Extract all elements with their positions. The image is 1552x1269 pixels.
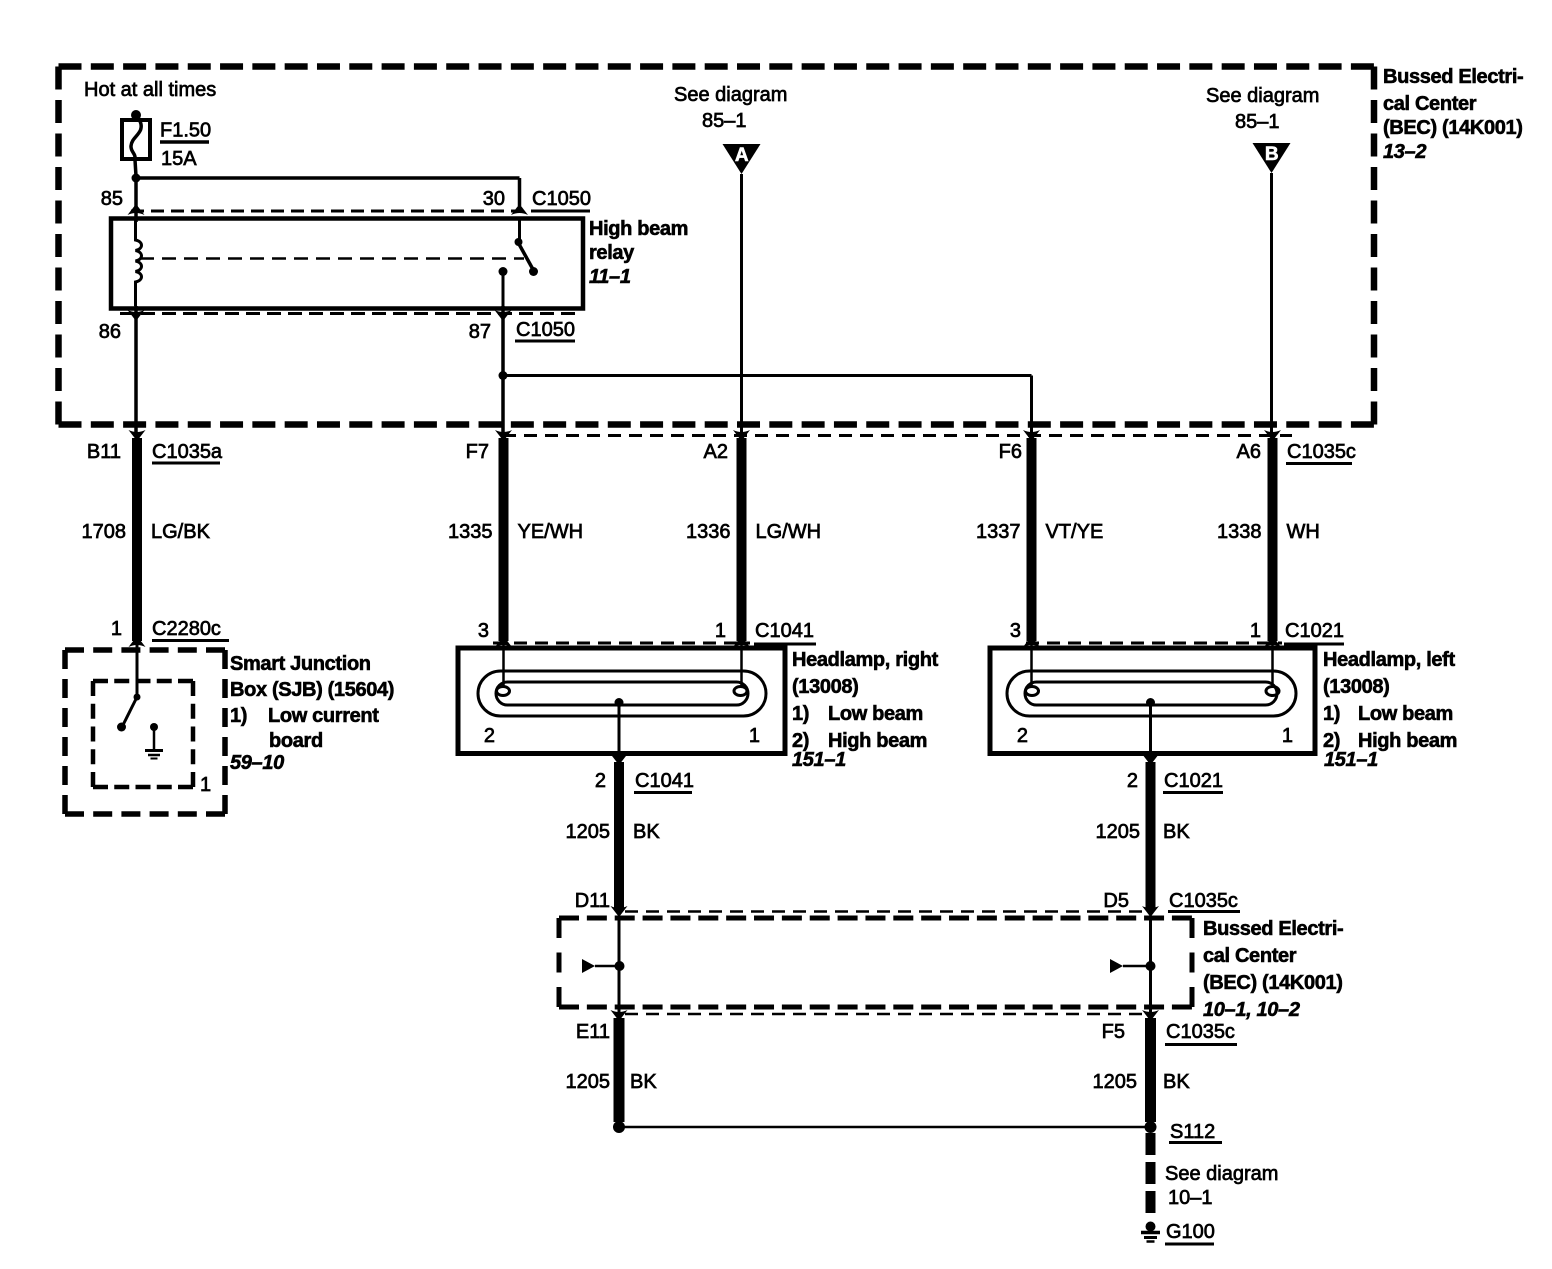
- headlamp right high beam filament: [734, 687, 747, 696]
- wire 1205 BK (F5, thick): [1145, 1018, 1156, 1122]
- connector label C1035c (middle): [1168, 890, 1240, 912]
- svg-text:1205: 1205: [1093, 1071, 1138, 1093]
- connector C1050 dashed line (bottom): [120, 312, 580, 315]
- svg-text:C1021: C1021: [1285, 620, 1344, 642]
- svg-text:1): 1): [230, 705, 247, 727]
- svg-text:BK: BK: [633, 821, 660, 843]
- svg-text:D11: D11: [575, 890, 610, 912]
- svg-text:(BEC) (14K001): (BEC) (14K001): [1383, 117, 1523, 139]
- pin 2 arrow (right lamp): [611, 754, 628, 765]
- label Bussed Electrical Center (BEC) (14K001) 13-2: [1383, 66, 1523, 163]
- svg-text:BK: BK: [1163, 821, 1190, 843]
- wire pin 86 down to B11: [134, 306, 138, 432]
- svg-text:1335: 1335: [448, 521, 493, 543]
- svg-text:C1041: C1041: [635, 770, 694, 792]
- connector label C1041 (top): [754, 620, 816, 644]
- label High beam relay 11-1: [589, 218, 688, 288]
- wire pin 1 to filament (left lamp): [1271, 641, 1274, 687]
- svg-text:G100: G100: [1166, 1221, 1215, 1243]
- svg-text:VT/YE: VT/YE: [1046, 521, 1104, 543]
- svg-text:85: 85: [101, 188, 123, 210]
- svg-text:cal Center: cal Center: [1383, 93, 1477, 115]
- connector label C1041 (bottom): [634, 770, 694, 793]
- pin A2 arrow: [733, 430, 750, 441]
- svg-text:Hot at all times: Hot at all times: [84, 79, 216, 101]
- wire pin 3 to filament (left lamp): [1030, 641, 1033, 687]
- connector label C1035a: [152, 441, 223, 463]
- pin E11 arrow: [611, 1010, 628, 1021]
- connector label C1021 (bottom): [1163, 770, 1223, 793]
- svg-text:D5: D5: [1103, 890, 1129, 912]
- svg-text:S112: S112: [1170, 1121, 1215, 1143]
- wire left lamp common to pin 2: [1149, 703, 1152, 759]
- svg-text:F1.50: F1.50: [160, 120, 211, 142]
- pin 87 arrow: [495, 310, 512, 321]
- Headlamp, left box (13008): [990, 648, 1315, 754]
- wire into SJB: [136, 641, 139, 698]
- wire 1337 VT/YE (thick): [1027, 438, 1037, 641]
- svg-text:C1035c: C1035c: [1287, 441, 1356, 463]
- label Headlamp, left (13008): [1323, 649, 1457, 771]
- wire splice (horizontal): [619, 1126, 1145, 1129]
- pin 3 arrow (right headlamp): [495, 636, 512, 647]
- SJB switch: [117, 681, 141, 732]
- wire branch down to F6: [1030, 376, 1033, 433]
- svg-text:See diagram: See diagram: [1206, 85, 1319, 107]
- svg-text:86: 86: [99, 321, 121, 343]
- svg-text:F7: F7: [466, 441, 489, 463]
- svg-text:1337: 1337: [976, 521, 1021, 543]
- svg-text:A: A: [735, 145, 749, 166]
- svg-text:LG/BK: LG/BK: [151, 521, 211, 543]
- svg-text:Headlamp, left: Headlamp, left: [1323, 649, 1455, 671]
- svg-text:(13008): (13008): [792, 676, 859, 698]
- svg-text:(BEC) (14K001): (BEC) (14K001): [1203, 972, 1343, 994]
- node: stub junction right: [1146, 961, 1156, 971]
- wire pin 3 to filament (right lamp): [502, 641, 505, 687]
- wire fuse to relay pin 30 (horizontal): [136, 176, 520, 180]
- wire 1708 LG/BK (thick): [132, 438, 142, 641]
- svg-text:1: 1: [200, 774, 211, 796]
- svg-text:1336: 1336: [686, 521, 731, 543]
- connector C1021 dashed line: [1026, 642, 1282, 645]
- svg-text:87: 87: [469, 321, 491, 343]
- wire down to pin 30: [518, 178, 522, 206]
- label See diagram 85-1 (A): [674, 84, 787, 132]
- svg-text:13–2: 13–2: [1383, 141, 1426, 163]
- svg-text:1): 1): [1323, 703, 1340, 725]
- svg-text:C1035a: C1035a: [152, 441, 223, 463]
- svg-text:3: 3: [1010, 620, 1021, 642]
- headlamp right low beam filament: [497, 687, 510, 696]
- label S112: [1169, 1121, 1222, 1143]
- svg-text:cal Center: cal Center: [1203, 945, 1297, 967]
- node: splice S112: [1145, 1121, 1157, 1133]
- wire pin 87 down to F7: [501, 306, 505, 432]
- svg-text:85–1: 85–1: [702, 110, 747, 132]
- connector C1050 dashed line (top): [131, 210, 523, 213]
- pin A6 arrow: [1264, 430, 1281, 441]
- connector C1041 dashed line: [493, 642, 750, 645]
- off-page connector triangle A: [723, 144, 761, 174]
- svg-text:F6: F6: [999, 441, 1022, 463]
- svg-text:2: 2: [1017, 725, 1028, 747]
- svg-text:1205: 1205: [1096, 821, 1141, 843]
- pin 30 arrow: [511, 204, 528, 215]
- pin F5 arrow: [1142, 1010, 1159, 1021]
- pin 1 arrow at C2280c: [129, 636, 146, 647]
- SJB low current board inner dashed box: [93, 679, 193, 684]
- svg-text:C1035c: C1035c: [1169, 890, 1238, 912]
- svg-text:BK: BK: [630, 1071, 657, 1093]
- connector label C1050 (bottom): [515, 319, 575, 341]
- connector label C1021 (top): [1284, 620, 1344, 644]
- connector C1035 dashed line below BEC: [503, 434, 1292, 437]
- node: splice left: [613, 1121, 625, 1133]
- label See diagram 85-1 (B): [1206, 85, 1319, 133]
- headlamp left bulb outer outline: [1007, 671, 1296, 716]
- node: right lamp common: [615, 698, 624, 707]
- svg-text:C1021: C1021: [1164, 770, 1223, 792]
- svg-text:E11: E11: [576, 1021, 610, 1043]
- node: pin 87 branch junction: [499, 371, 508, 380]
- pin 2 arrow (left lamp): [1142, 754, 1159, 765]
- BEC internal stub (right): [1110, 959, 1147, 973]
- BEC internal stub (left): [582, 959, 617, 973]
- headlamp left high beam filament: [1266, 687, 1279, 696]
- wire right lamp common to pin 2: [618, 703, 621, 759]
- relay coil: [136, 219, 142, 306]
- pin 85 arrow: [128, 204, 145, 215]
- svg-text:C1035c: C1035c: [1166, 1021, 1235, 1043]
- pin D5 arrow: [1142, 906, 1159, 917]
- svg-text:59–10: 59–10: [230, 752, 284, 774]
- svg-text:30: 30: [483, 188, 505, 210]
- wire D5 to F5 inside BEC: [1149, 917, 1152, 1021]
- connector label C2280c: [152, 618, 229, 641]
- svg-text:Bussed Electri-: Bussed Electri-: [1203, 918, 1343, 940]
- relay switch contact to pin 87: [499, 267, 508, 306]
- Smart Junction Box (SJB) outer dashed box: [65, 647, 225, 653]
- svg-text:85–1: 85–1: [1235, 111, 1280, 133]
- label G100: [1165, 1221, 1215, 1244]
- headlamp left low beam filament: [1026, 687, 1039, 696]
- svg-text:1205: 1205: [566, 821, 611, 843]
- pin B11 arrow: [129, 430, 146, 441]
- svg-text:151–1: 151–1: [792, 749, 846, 771]
- svg-text:C1050: C1050: [516, 319, 575, 341]
- SJB ground symbol: [145, 723, 163, 759]
- connector label C1035c (top): [1286, 441, 1356, 464]
- svg-text:151–1: 151–1: [1324, 749, 1378, 771]
- wire pin 1 to filament (right lamp): [740, 641, 743, 687]
- pin F7 arrow: [495, 430, 512, 441]
- svg-text:A6: A6: [1237, 441, 1261, 463]
- fuse F1.50 15A: [122, 110, 150, 176]
- node: left lamp common: [1146, 698, 1155, 707]
- svg-text:2: 2: [595, 770, 606, 792]
- svg-text:C2280c: C2280c: [152, 618, 221, 640]
- off-page connector triangle B: [1253, 143, 1291, 173]
- svg-text:1205: 1205: [566, 1071, 611, 1093]
- svg-text:2: 2: [484, 725, 495, 747]
- Bussed Electrical Center (BEC) outer dashed box 13-2: [59, 63, 1375, 70]
- pin D11 arrow: [611, 906, 628, 917]
- node: fuse output junction: [132, 174, 141, 183]
- wire 1338 WH (thick): [1268, 438, 1278, 641]
- wire 1336 LG/WH (thick): [737, 438, 747, 641]
- svg-text:board: board: [269, 730, 323, 752]
- label Bussed Electrical Center (BEC) (14K001) 10-1 10-2: [1203, 918, 1343, 1021]
- svg-text:1): 1): [792, 703, 809, 725]
- Headlamp, right box (13008): [458, 648, 785, 754]
- wire 1205 BK right lamp (thick): [614, 762, 624, 910]
- pin 86 arrow: [128, 310, 145, 321]
- pin 1 arrow (right headlamp): [733, 636, 750, 647]
- wire S112 to G100 (thick dashed): [1146, 1133, 1156, 1220]
- svg-text:2: 2: [1127, 770, 1138, 792]
- svg-text:1: 1: [1250, 620, 1261, 642]
- pin 1 arrow (left headlamp): [1264, 636, 1281, 647]
- wire 1335 YE/WH (thick): [499, 438, 509, 641]
- svg-text:See diagram: See diagram: [1165, 1163, 1278, 1185]
- connector C1035c dashed line (top of lower BEC): [625, 910, 1145, 913]
- headlamp right bulb outer outline: [478, 671, 766, 716]
- svg-text:Low beam: Low beam: [1358, 703, 1453, 725]
- svg-text:1: 1: [1282, 725, 1293, 747]
- label Smart Junction Box (SJB) (15604) 59-10: [230, 653, 394, 774]
- wire fuse junction down to pin 85: [134, 178, 138, 222]
- svg-text:WH: WH: [1287, 521, 1320, 543]
- wire 1205 BK left lamp (thick): [1146, 762, 1156, 910]
- svg-text:LG/WH: LG/WH: [756, 521, 822, 543]
- pin F6 arrow: [1023, 430, 1040, 441]
- svg-text:11–1: 11–1: [589, 266, 631, 288]
- svg-text:1: 1: [715, 620, 726, 642]
- svg-text:Smart Junction: Smart Junction: [230, 653, 371, 675]
- svg-text:10–1, 10–2: 10–1, 10–2: [1203, 999, 1300, 1021]
- svg-text:1: 1: [749, 725, 760, 747]
- svg-text:10–1: 10–1: [1168, 1187, 1213, 1209]
- svg-text:3: 3: [478, 620, 489, 642]
- label See diagram 10-1: [1165, 1163, 1278, 1209]
- svg-text:1708: 1708: [82, 521, 127, 543]
- connector C1035c dashed line (bottom of lower BEC): [625, 1013, 1145, 1016]
- wire A down to A2: [740, 174, 743, 432]
- svg-text:Box (SJB) (15604): Box (SJB) (15604): [230, 679, 394, 701]
- connector label C1035c (bottom): [1165, 1021, 1237, 1045]
- ground G100 symbol: [1141, 1222, 1160, 1242]
- svg-text:C1050: C1050: [532, 188, 591, 210]
- Bussed Electrical Center lower dashed box 10-1 10-2: [559, 916, 1192, 921]
- label Headlamp, right (13008): [792, 649, 939, 771]
- headlamp right bulb inner outline: [496, 682, 748, 705]
- label F1.50 / 15A fuse value: [160, 120, 211, 171]
- svg-text:Low beam: Low beam: [828, 703, 923, 725]
- svg-text:B11: B11: [87, 441, 121, 463]
- svg-text:B: B: [1265, 144, 1278, 165]
- pin 3 arrow (left headlamp): [1023, 636, 1040, 647]
- svg-text:High beam: High beam: [589, 218, 688, 240]
- svg-text:Bussed Electri-: Bussed Electri-: [1383, 66, 1523, 88]
- wire D11 to E11 inside BEC: [618, 917, 621, 1021]
- relay: High beam relay box 11-1: [111, 219, 583, 309]
- svg-text:See diagram: See diagram: [674, 84, 787, 106]
- svg-text:BK: BK: [1163, 1071, 1190, 1093]
- svg-text:C1041: C1041: [755, 620, 814, 642]
- connector label C1050 (top): [531, 188, 591, 211]
- svg-text:Headlamp, right: Headlamp, right: [792, 649, 939, 671]
- svg-text:YE/WH: YE/WH: [518, 521, 584, 543]
- svg-text:15A: 15A: [161, 148, 197, 170]
- svg-text:F5: F5: [1102, 1021, 1125, 1043]
- svg-text:A2: A2: [704, 441, 728, 463]
- wire B down to A6: [1270, 173, 1273, 432]
- svg-text:relay: relay: [589, 242, 635, 264]
- relay switch contact from pin 30: [515, 220, 539, 276]
- svg-text:1338: 1338: [1217, 521, 1262, 543]
- relay internal linkage dashed line: [140, 257, 524, 260]
- wire 1205 BK (E11, thick): [614, 1018, 625, 1122]
- headlamp left bulb inner outline: [1025, 682, 1277, 705]
- wire branch to F6 (horizontal): [503, 374, 1032, 377]
- node: stub junction left: [615, 961, 625, 971]
- svg-text:Low current: Low current: [268, 705, 379, 727]
- svg-text:1: 1: [111, 618, 122, 640]
- svg-text:(13008): (13008): [1323, 676, 1390, 698]
